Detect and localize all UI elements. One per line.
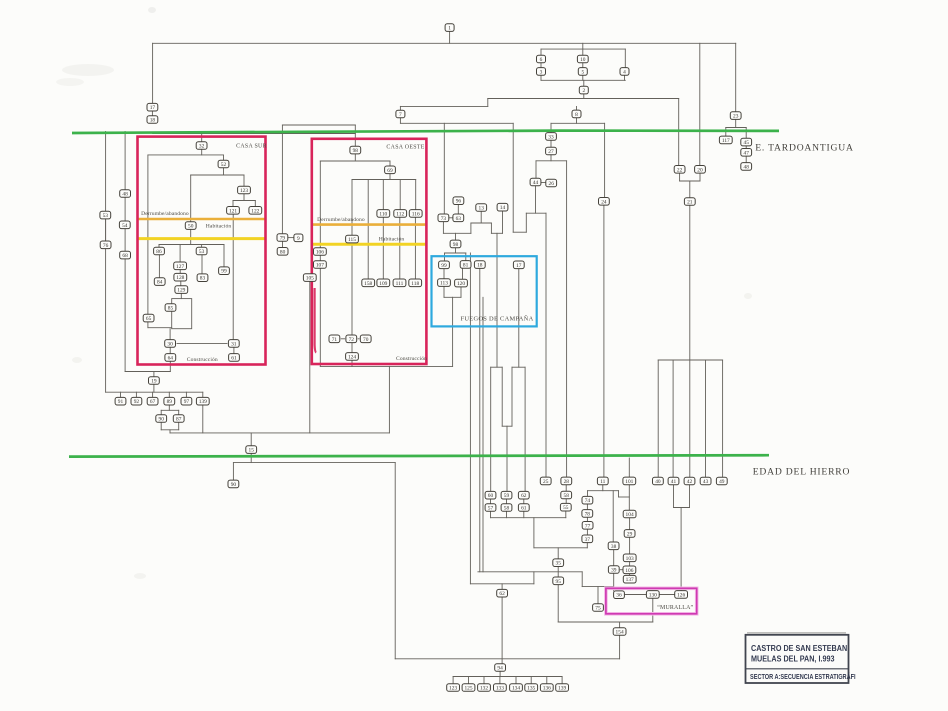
svg-text:11: 11 [600,479,605,485]
svg-text:20: 20 [697,167,703,173]
svg-text:47: 47 [744,150,750,156]
svg-text:48: 48 [744,164,750,170]
svg-text:132: 132 [480,686,488,692]
svg-text:90: 90 [231,482,237,488]
svg-text:80: 80 [280,249,286,255]
svg-text:43: 43 [703,479,709,485]
svg-text:99: 99 [221,269,227,275]
svg-text:55: 55 [563,505,569,511]
svg-text:SECTOR A:SECUENCIA ESTRATIGRÁF: SECTOR A:SECUENCIA ESTRATIGRÁFI [750,671,856,681]
svg-text:4: 4 [623,69,626,75]
svg-text:44: 44 [533,180,539,186]
svg-text:18: 18 [477,263,483,269]
svg-text:73: 73 [441,216,447,222]
svg-text:105: 105 [306,276,314,282]
svg-text:154: 154 [616,630,624,636]
svg-text:37: 37 [585,537,591,543]
svg-text:86: 86 [156,249,162,255]
svg-text:40: 40 [655,479,661,485]
svg-text:113: 113 [440,281,448,287]
svg-text:81: 81 [463,262,469,268]
svg-text:21: 21 [687,200,693,206]
svg-text:72: 72 [349,337,355,343]
svg-text:128: 128 [176,275,184,281]
svg-text:61: 61 [231,355,237,361]
svg-text:53: 53 [199,249,205,255]
svg-text:E. TARDOANTIGUA: E. TARDOANTIGUA [755,143,853,154]
svg-text:54: 54 [122,223,128,229]
svg-text:96: 96 [456,199,462,205]
svg-text:6: 6 [540,57,543,63]
svg-text:122: 122 [251,208,259,214]
svg-text:110: 110 [379,211,387,217]
svg-text:124: 124 [348,354,356,360]
svg-text:19: 19 [151,379,157,385]
svg-text:95: 95 [556,579,562,585]
svg-text:17: 17 [150,105,156,111]
svg-text:2: 2 [582,88,585,94]
svg-text:Habitación: Habitación [379,237,405,243]
svg-text:“MURALLA”: “MURALLA” [657,604,693,611]
svg-text:FUEGOS DE CAMPAÑA: FUEGOS DE CAMPAÑA [460,315,533,323]
svg-text:3: 3 [540,69,543,75]
svg-text:98: 98 [453,242,459,248]
svg-text:53: 53 [103,213,109,219]
svg-text:104: 104 [626,512,634,518]
svg-text:EDAD DEL HIERRO: EDAD DEL HIERRO [753,467,850,478]
svg-text:62: 62 [499,591,505,597]
svg-text:5: 5 [581,69,584,75]
svg-text:83: 83 [200,276,206,282]
svg-text:MUELAS DEL PAN, I.993: MUELAS DEL PAN, I.993 [751,654,835,664]
svg-text:7: 7 [399,112,402,118]
svg-text:29: 29 [627,531,633,537]
svg-text:49: 49 [719,479,725,485]
svg-text:63: 63 [456,216,462,222]
svg-text:52: 52 [221,162,227,168]
svg-text:125: 125 [464,686,472,692]
svg-text:133: 133 [496,686,504,692]
svg-text:76: 76 [103,243,109,249]
svg-text:33: 33 [548,134,554,140]
svg-text:91: 91 [118,399,124,405]
svg-text:30: 30 [167,341,173,347]
svg-text:38: 38 [611,544,617,550]
svg-text:99: 99 [441,263,447,269]
svg-text:57: 57 [488,506,494,512]
svg-text:69: 69 [387,168,393,174]
svg-text:65: 65 [146,316,152,322]
svg-text:127: 127 [176,264,184,270]
svg-text:74: 74 [585,498,591,504]
svg-text:67: 67 [150,399,156,405]
svg-text:1: 1 [448,26,451,32]
svg-text:27: 27 [548,149,554,155]
svg-text:Derrumbe/abandono: Derrumbe/abandono [141,211,189,217]
svg-text:117: 117 [722,138,730,144]
svg-text:97: 97 [184,399,190,405]
svg-text:101: 101 [625,479,633,485]
svg-text:14: 14 [500,205,506,211]
svg-text:28: 28 [564,479,570,485]
svg-text:111: 111 [396,281,404,287]
svg-text:39: 39 [611,568,617,574]
svg-text:Derrumbe/abandono: Derrumbe/abandono [317,217,365,223]
svg-text:Construcción: Construcción [396,356,427,362]
svg-text:41: 41 [671,479,677,485]
svg-text:139: 139 [558,686,566,692]
svg-text:78: 78 [585,511,591,517]
svg-text:CASTRO DE SAN ESTEBAN: CASTRO DE SAN ESTEBAN [751,644,848,654]
svg-text:107: 107 [316,263,324,269]
svg-text:Construcción: Construcción [187,357,218,363]
svg-text:136: 136 [543,686,551,692]
svg-text:32: 32 [199,144,205,150]
svg-text:15: 15 [249,448,255,454]
svg-text:CASA SUR: CASA SUR [236,143,267,149]
svg-text:94: 94 [497,666,503,672]
svg-text:26: 26 [549,181,555,187]
svg-text:60: 60 [488,493,494,499]
svg-text:25: 25 [543,479,549,485]
svg-text:CASA OESTE: CASA OESTE [386,144,424,150]
svg-text:103: 103 [626,556,634,562]
svg-text:62: 62 [521,493,527,499]
svg-text:106: 106 [316,250,324,256]
svg-text:118: 118 [411,281,419,287]
svg-text:10: 10 [580,57,586,63]
svg-text:31: 31 [231,341,237,347]
svg-text:70: 70 [363,337,369,343]
svg-text:64: 64 [168,355,174,361]
svg-text:90: 90 [159,417,165,423]
svg-text:137: 137 [626,577,634,583]
svg-text:129: 129 [177,288,185,294]
svg-text:18: 18 [150,118,156,124]
svg-text:71: 71 [332,337,338,343]
svg-text:50: 50 [188,224,194,230]
svg-text:42: 42 [687,479,693,485]
svg-text:120: 120 [457,281,465,287]
svg-text:123: 123 [449,686,457,692]
svg-text:24: 24 [601,199,607,205]
svg-text:92: 92 [134,399,140,405]
svg-text:106: 106 [625,568,633,574]
svg-text:116: 116 [412,211,420,217]
svg-text:59: 59 [504,493,510,499]
svg-text:45: 45 [744,140,750,146]
svg-text:98: 98 [353,148,359,154]
svg-text:17: 17 [516,263,522,269]
svg-text:79: 79 [280,236,286,242]
svg-text:77: 77 [585,523,591,529]
svg-text:109: 109 [379,281,387,287]
svg-text:23: 23 [733,114,739,120]
svg-text:8: 8 [575,112,578,118]
svg-text:68: 68 [122,253,128,259]
svg-text:135: 135 [527,686,535,692]
svg-text:84: 84 [157,280,163,286]
svg-text:89: 89 [167,399,173,405]
svg-text:121: 121 [229,208,237,214]
svg-text:87: 87 [176,417,182,423]
svg-text:123: 123 [240,188,248,194]
svg-text:75: 75 [595,606,601,612]
svg-text:58: 58 [564,493,570,499]
svg-text:13: 13 [479,206,485,212]
svg-text:85: 85 [168,306,174,312]
svg-text:126: 126 [677,592,685,598]
svg-text:139: 139 [199,399,207,405]
svg-text:134: 134 [512,686,520,692]
svg-text:112: 112 [396,211,404,217]
svg-text:9: 9 [297,236,300,242]
svg-text:58: 58 [504,506,510,512]
svg-text:48: 48 [122,192,128,198]
svg-text:22: 22 [677,167,683,173]
svg-text:Habitación: Habitación [206,223,232,229]
svg-text:158: 158 [364,281,372,287]
svg-text:36: 36 [616,593,622,599]
svg-text:130: 130 [649,592,657,598]
svg-text:115: 115 [348,237,356,243]
svg-text:61: 61 [521,506,527,512]
svg-text:35: 35 [556,561,562,567]
